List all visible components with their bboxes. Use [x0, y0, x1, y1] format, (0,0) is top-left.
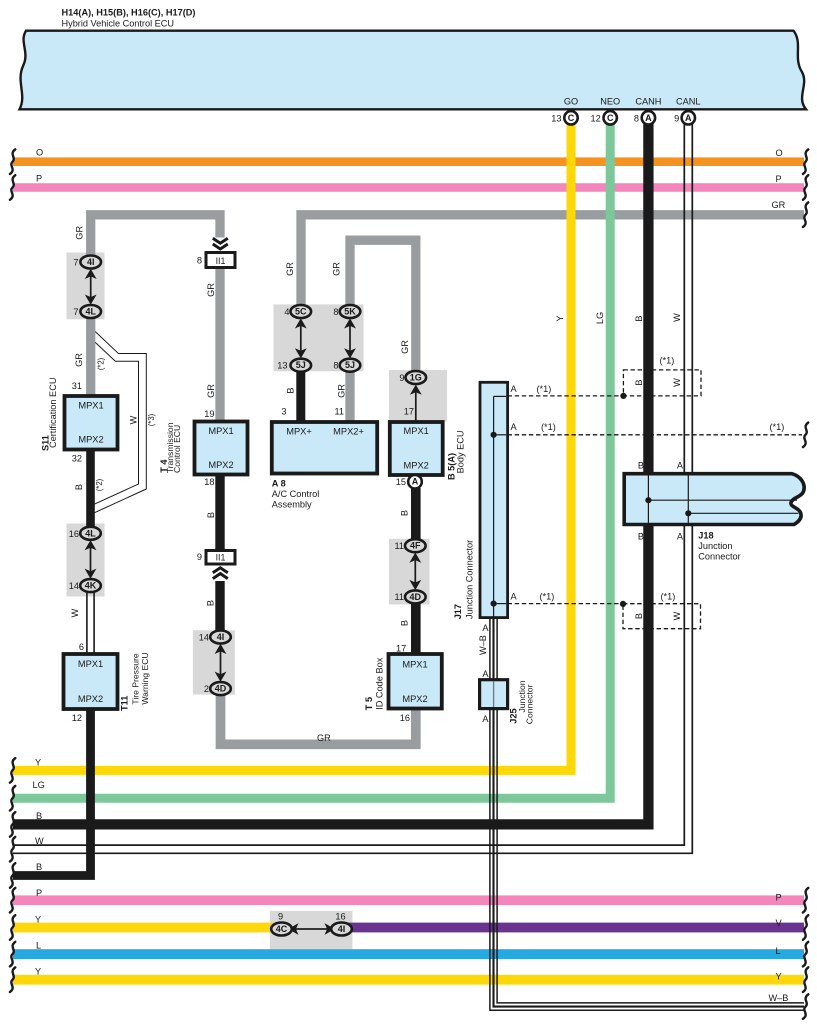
svg-text:5C: 5C	[295, 307, 307, 317]
svg-text:B: B	[634, 613, 644, 619]
svg-text:W: W	[672, 378, 682, 387]
svg-text:A/C Control: A/C Control	[272, 489, 320, 499]
svg-text:6: 6	[79, 642, 84, 652]
svg-text:Assembly: Assembly	[272, 500, 312, 510]
svg-text:A: A	[511, 384, 518, 394]
svg-text:(*1): (*1)	[660, 356, 675, 366]
svg-text:8: 8	[333, 307, 338, 317]
svg-text:4L: 4L	[85, 528, 96, 538]
svg-text:B: B	[634, 315, 644, 321]
svg-text:ID Code Box: ID Code Box	[374, 657, 384, 709]
svg-text:NEO: NEO	[600, 97, 620, 107]
svg-text:MPX2: MPX2	[404, 460, 429, 470]
svg-text:13: 13	[277, 361, 287, 371]
svg-text:LG: LG	[33, 780, 45, 790]
svg-text:MPX1: MPX1	[78, 400, 103, 410]
svg-text:A: A	[482, 623, 489, 633]
svg-text:14: 14	[69, 581, 79, 591]
svg-text:32: 32	[72, 454, 82, 464]
svg-text:A: A	[511, 422, 518, 432]
svg-text:(*1): (*1)	[661, 592, 676, 602]
svg-text:A: A	[482, 714, 489, 724]
svg-text:Junction Connector: Junction Connector	[465, 540, 475, 619]
svg-text:P: P	[36, 888, 42, 898]
svg-text:O: O	[36, 148, 43, 158]
svg-text:4I: 4I	[87, 257, 95, 267]
svg-text:4K: 4K	[85, 581, 97, 591]
svg-text:W: W	[672, 611, 682, 620]
svg-text:15: 15	[396, 477, 406, 487]
svg-text:MPX2: MPX2	[208, 460, 233, 470]
svg-text:GR: GR	[206, 384, 216, 398]
svg-text:P: P	[776, 174, 782, 184]
svg-text:4I: 4I	[217, 632, 225, 642]
svg-text:9: 9	[197, 552, 202, 562]
svg-text:B: B	[634, 379, 644, 385]
svg-text:(*1): (*1)	[541, 422, 556, 432]
svg-text:5K: 5K	[344, 307, 356, 317]
svg-text:19: 19	[204, 409, 214, 419]
svg-text:(*1): (*1)	[540, 592, 555, 602]
svg-text:C: C	[607, 113, 614, 123]
svg-text:C: C	[568, 113, 575, 123]
svg-text:3: 3	[281, 406, 286, 416]
svg-text:11: 11	[394, 541, 404, 551]
svg-text:GR: GR	[285, 262, 295, 276]
svg-text:Connector: Connector	[698, 552, 740, 562]
svg-text:A: A	[645, 113, 652, 123]
svg-text:II1: II1	[216, 552, 226, 562]
svg-text:4D: 4D	[410, 592, 422, 602]
svg-text:T11: T11	[120, 696, 130, 711]
svg-text:GR: GR	[75, 226, 85, 240]
svg-text:B: B	[36, 811, 42, 821]
svg-text:14: 14	[199, 633, 209, 643]
svg-text:4I: 4I	[338, 924, 346, 934]
svg-text:MPX1: MPX1	[208, 426, 233, 436]
svg-text:W–B: W–B	[769, 993, 789, 1003]
svg-text:GR: GR	[400, 340, 410, 354]
svg-text:(*2): (*2)	[97, 357, 106, 370]
svg-text:II1: II1	[216, 256, 226, 266]
svg-text:Control ECU: Control ECU	[172, 425, 182, 473]
svg-text:12: 12	[72, 713, 82, 723]
svg-text:9: 9	[278, 912, 283, 922]
svg-text:W: W	[70, 608, 80, 617]
svg-text:8: 8	[197, 255, 202, 265]
svg-text:(*2): (*2)	[95, 478, 104, 491]
svg-text:MPX2: MPX2	[78, 694, 103, 704]
svg-text:GR: GR	[317, 733, 331, 743]
svg-text:A 8: A 8	[272, 479, 286, 489]
svg-text:1G: 1G	[410, 373, 422, 383]
svg-text:Y: Y	[776, 971, 782, 981]
svg-text:4F: 4F	[410, 541, 421, 551]
svg-text:B: B	[74, 484, 84, 490]
svg-text:P: P	[36, 173, 42, 183]
svg-text:P: P	[776, 893, 782, 903]
svg-text:W: W	[672, 313, 682, 322]
svg-text:CANL: CANL	[676, 97, 701, 107]
svg-text:A: A	[482, 669, 489, 679]
svg-text:4C: 4C	[276, 924, 288, 934]
svg-text:GR: GR	[332, 262, 342, 276]
svg-text:18: 18	[204, 477, 214, 487]
svg-text:T 5: T 5	[364, 697, 374, 710]
svg-text:J17: J17	[453, 604, 463, 619]
svg-text:W: W	[35, 836, 44, 846]
svg-text:16: 16	[335, 912, 345, 922]
svg-text:GO: GO	[564, 97, 578, 107]
svg-text:Y: Y	[555, 315, 565, 321]
svg-text:LG: LG	[595, 312, 605, 324]
svg-text:W: W	[129, 415, 139, 424]
svg-text:Warning ECU: Warning ECU	[140, 652, 150, 704]
svg-text:A: A	[677, 461, 684, 471]
svg-text:31: 31	[72, 381, 82, 391]
svg-text:B: B	[206, 600, 216, 606]
svg-text:B: B	[400, 620, 410, 626]
svg-text:9: 9	[399, 373, 404, 383]
svg-text:4D: 4D	[215, 684, 227, 694]
svg-text:9: 9	[674, 113, 679, 123]
svg-text:7: 7	[73, 307, 78, 317]
svg-text:Y: Y	[35, 758, 41, 768]
svg-text:2: 2	[204, 684, 209, 694]
svg-text:W–B: W–B	[478, 635, 488, 655]
svg-text:A: A	[511, 592, 518, 602]
svg-text:Tire Pressure: Tire Pressure	[130, 653, 140, 704]
svg-text:B: B	[286, 387, 296, 393]
svg-text:17: 17	[404, 406, 414, 416]
svg-text:MPX1: MPX1	[78, 659, 103, 669]
svg-text:12: 12	[590, 113, 600, 123]
svg-text:MPX2: MPX2	[402, 694, 427, 704]
svg-text:Body ECU: Body ECU	[456, 430, 466, 473]
svg-text:CANH: CANH	[635, 97, 661, 107]
svg-text:GR: GR	[772, 200, 786, 210]
svg-text:11: 11	[334, 406, 344, 416]
svg-text:(*1): (*1)	[537, 384, 552, 394]
svg-text:Junction: Junction	[698, 541, 732, 551]
svg-text:MPX1: MPX1	[402, 659, 427, 669]
svg-text:B: B	[638, 461, 644, 471]
svg-text:Certification ECU: Certification ECU	[48, 378, 58, 448]
svg-text:Connector: Connector	[525, 684, 535, 724]
svg-text:O: O	[776, 148, 783, 158]
svg-text:(*1): (*1)	[770, 422, 785, 432]
svg-text:8: 8	[634, 113, 639, 123]
svg-text:A: A	[677, 532, 684, 542]
svg-text:GR: GR	[337, 384, 347, 398]
svg-text:13: 13	[551, 113, 561, 123]
svg-text:MPX2+: MPX2+	[333, 426, 364, 436]
svg-text:16: 16	[69, 529, 79, 539]
svg-text:L: L	[36, 941, 41, 951]
svg-text:J18: J18	[698, 531, 713, 541]
svg-text:B: B	[36, 862, 42, 872]
svg-text:7: 7	[73, 257, 78, 267]
svg-text:L: L	[776, 946, 781, 956]
svg-text:17: 17	[396, 644, 406, 654]
svg-text:4: 4	[284, 307, 289, 317]
svg-text:H14(A), H15(B), H16(C), H17(D): H14(A), H15(B), H16(C), H17(D)	[62, 8, 196, 18]
svg-text:8: 8	[333, 361, 338, 371]
svg-text:GR: GR	[206, 283, 216, 297]
svg-text:B: B	[638, 532, 644, 542]
svg-text:5J: 5J	[296, 360, 306, 370]
svg-text:Hybrid Vehicle Control ECU: Hybrid Vehicle Control ECU	[62, 19, 175, 29]
svg-text:MPX1: MPX1	[404, 426, 429, 436]
svg-text:Y: Y	[35, 966, 41, 976]
svg-text:MPX+: MPX+	[286, 426, 312, 436]
svg-text:A: A	[685, 113, 692, 123]
svg-text:GR: GR	[74, 353, 84, 367]
svg-text:A: A	[412, 477, 419, 487]
svg-text:B: B	[400, 510, 410, 516]
svg-text:11: 11	[394, 592, 404, 602]
svg-text:Y: Y	[35, 914, 41, 924]
svg-text:16: 16	[400, 713, 410, 723]
svg-text:MPX2: MPX2	[78, 435, 103, 445]
svg-text:B: B	[206, 512, 216, 518]
svg-text:(*3): (*3)	[147, 413, 156, 426]
svg-text:V: V	[776, 918, 783, 928]
svg-text:5J: 5J	[345, 360, 355, 370]
svg-text:4L: 4L	[85, 307, 96, 317]
